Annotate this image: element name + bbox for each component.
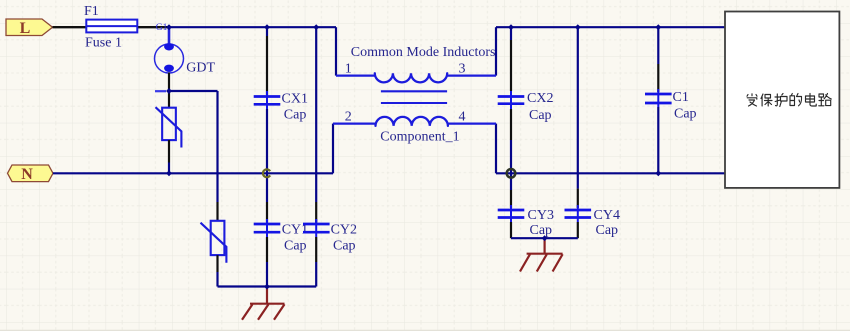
junction bus2/ground (542, 235, 548, 241)
svg-text:Fuse 1: Fuse 1 (85, 35, 122, 50)
port L (6, 19, 53, 37)
wire node A down to varistor 2 (216, 91, 218, 202)
load box (725, 12, 839, 188)
wire stub pin2 (332, 124, 334, 174)
tick near node A (155, 90, 166, 92)
svg-text:F1: F1 (84, 4, 99, 19)
svg-text:GDT: GDT (186, 60, 215, 75)
char 受 (747, 94, 757, 106)
wire top rail right (496, 26, 725, 28)
svg-text:Component_1: Component_1 (380, 129, 459, 144)
junction L/CX2 (508, 24, 514, 30)
svg-text:N: N (21, 166, 33, 183)
char 保 (761, 94, 772, 106)
svg-text:Cap: Cap (596, 223, 619, 238)
label protected circuit (受保护的电路) (747, 94, 831, 107)
capacitor CY2 (303, 27, 330, 286)
common mode choke L1 (333, 73, 496, 126)
svg-text:Cap: Cap (284, 108, 307, 123)
svg-text:Cap: Cap (529, 108, 552, 123)
wire top L rail mid (169, 26, 336, 28)
char 的 (790, 94, 802, 106)
wire stub pin4 (495, 124, 497, 174)
svg-text:Cap: Cap (674, 107, 697, 122)
svg-text:CY2: CY2 (331, 222, 357, 237)
ground 2 (520, 238, 563, 271)
char 护 (775, 94, 787, 107)
capacitor CY3 (498, 173, 525, 238)
capacitor C1 (645, 27, 672, 173)
svg-text:Common Mode Inductors: Common Mode Inductors (351, 45, 496, 60)
svg-text:CX1: CX1 (282, 91, 308, 106)
svg-text:2: 2 (345, 109, 352, 124)
GDT tube (155, 28, 184, 73)
svg-text:Cap: Cap (530, 223, 553, 238)
junction L/CY4 (575, 24, 581, 30)
svg-text:1: 1 (345, 62, 352, 77)
port N (8, 165, 54, 183)
svg-text:L: L (20, 20, 31, 37)
wire ground bus 1 (218, 285, 317, 287)
wire stub pin1 (335, 27, 337, 75)
junction N/RV1 (166, 170, 172, 176)
wire L-port to fuse (black) (53, 26, 87, 28)
svg-text:G1: G1 (156, 23, 168, 33)
wire GDT bottom (black) (168, 73, 170, 92)
junction ring N/CX1 (263, 169, 270, 177)
junction ring rail/CX2/CY3 (507, 169, 516, 178)
svg-text:3: 3 (459, 62, 466, 77)
wire node A horizontal (169, 90, 218, 92)
capacitor CX2 (498, 27, 525, 173)
svg-text:CY4: CY4 (594, 208, 620, 223)
svg-text:4: 4 (459, 109, 466, 124)
junction node A (166, 88, 172, 94)
varistor RV1 (156, 91, 182, 173)
bottom window edge (0, 329, 850, 331)
svg-text:C1: C1 (673, 90, 689, 105)
capacitor CY1 (254, 173, 281, 286)
fuse F1 (86, 20, 137, 33)
wire mid-right rail (496, 172, 725, 174)
svg-text:CY3: CY3 (528, 208, 554, 223)
varistor RV2 (201, 202, 227, 287)
capacitor CX1 (254, 27, 281, 173)
wire N rail (53, 172, 333, 174)
ground 1 (242, 287, 285, 320)
wire fuse to junction (black) (137, 26, 169, 28)
wire stub pin3 (495, 27, 497, 75)
junction L/CY2 (313, 24, 319, 30)
svg-text:Cap: Cap (333, 239, 356, 254)
junction rail/C1 (655, 170, 661, 176)
svg-text:CX2: CX2 (527, 91, 553, 106)
capacitor CY4 (565, 27, 592, 238)
junction L/CX1 (264, 24, 270, 30)
junction L/C1 (655, 24, 661, 30)
char 路 (819, 94, 832, 106)
junction bus1/ground (264, 284, 270, 290)
svg-text:Cap: Cap (284, 239, 307, 254)
wire ground bus 2 (511, 237, 578, 239)
char 电 (806, 94, 817, 107)
junction L/GDT (166, 24, 172, 30)
